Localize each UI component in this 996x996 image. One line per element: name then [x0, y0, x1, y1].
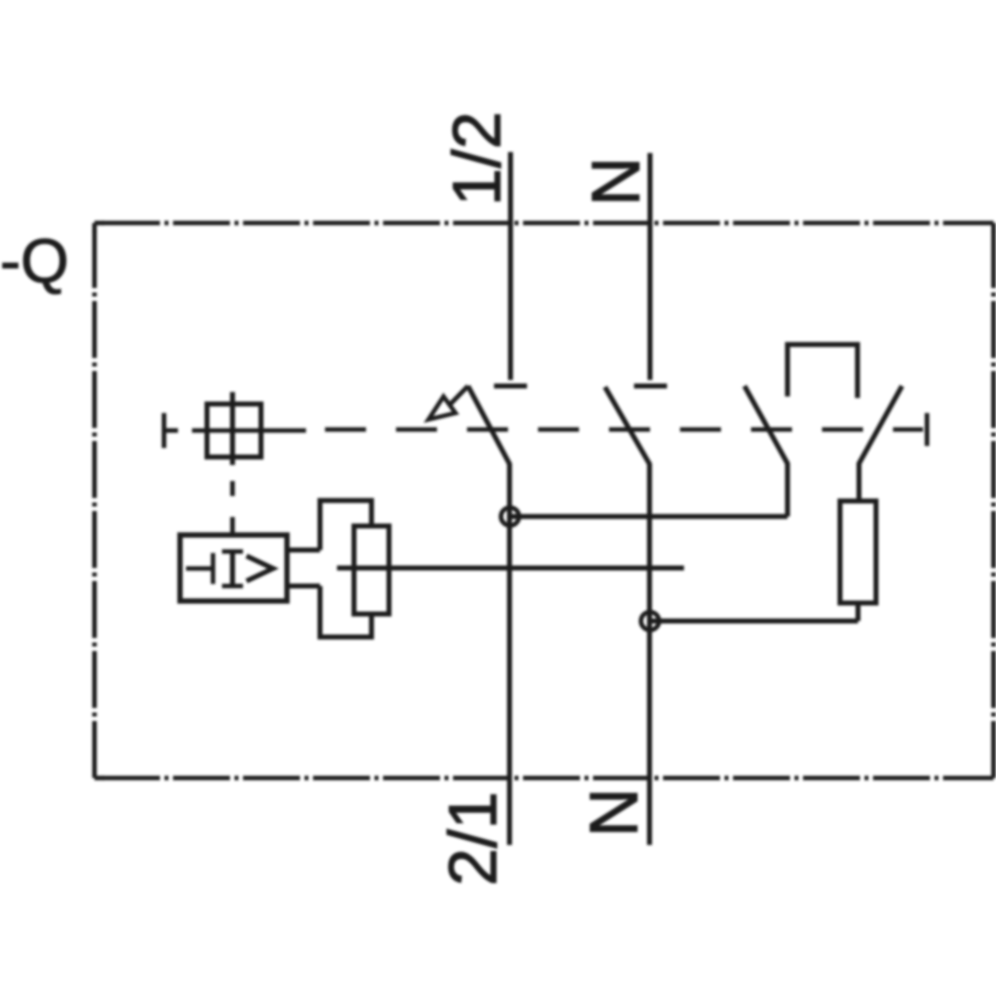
I> symbol: letter I	[230, 551, 235, 587]
svg-text:-Q: -Q	[0, 227, 69, 296]
test button S (square with cross)	[207, 404, 261, 457]
trip arrow head (open)	[429, 397, 456, 420]
wire: resistor bottom lead	[856, 603, 861, 621]
left linkage terminal tick	[162, 413, 167, 448]
summation current transformer core outline	[320, 501, 372, 638]
solid linkage segment through test button	[192, 428, 306, 433]
wire: node on pole 1 to test contact	[510, 514, 788, 519]
transformer to release connecting stubs	[287, 548, 320, 553]
switch blade pole N	[605, 387, 650, 845]
dashed linkage segments	[325, 427, 923, 432]
node junction on pole N	[641, 612, 659, 630]
fixed contact bar pole N	[634, 384, 667, 389]
primary conductor wire through transformer	[337, 566, 684, 571]
I> symbol: tee	[186, 566, 213, 570]
fixed contact bar pole 1	[494, 384, 527, 389]
test resistor	[840, 501, 876, 603]
mechanical linkage dashed line	[164, 413, 927, 448]
node junction on pole 1	[501, 508, 519, 526]
I> symbol: greater-than	[247, 556, 274, 581]
test contact blade left	[745, 386, 788, 517]
svg-text:N: N	[576, 788, 652, 837]
test button link dashed vertical	[230, 481, 235, 496]
transformer secondary winding rectangle	[354, 526, 389, 614]
wire: pole N top lead	[648, 153, 653, 380]
test contact blade right	[859, 386, 902, 501]
test button cross vertical	[230, 392, 235, 465]
enclosure dash-dot border of breaker -Q	[95, 223, 994, 778]
wire: node on pole N to test resistor	[650, 619, 858, 624]
test circuit fixed contact staple	[788, 345, 858, 399]
svg-text:2/1: 2/1	[435, 791, 511, 886]
overcurrent release box I>	[180, 535, 287, 601]
switch blade pole 1	[468, 386, 510, 845]
wire: pole 1/2 top lead	[508, 152, 513, 380]
right linkage terminal tick	[925, 413, 930, 446]
svg-text:1/2: 1/2	[439, 111, 515, 206]
svg-text:N: N	[578, 157, 654, 206]
trip arrow shaft	[450, 386, 469, 405]
